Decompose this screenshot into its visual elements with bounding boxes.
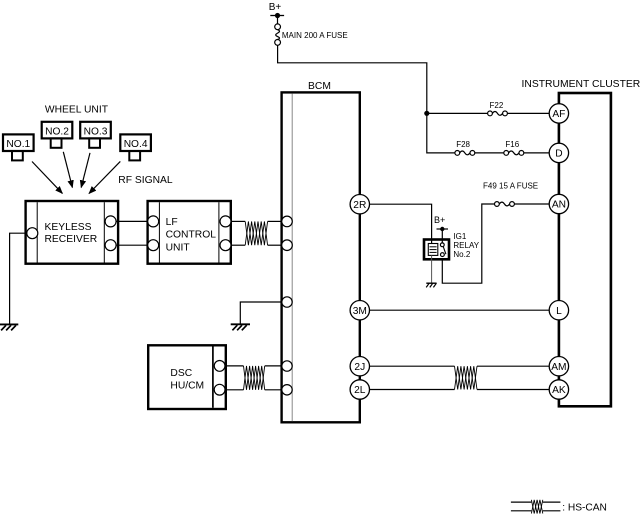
svg-text:LF: LF [166,217,178,228]
wire 2L to twist [369,389,454,391]
pin LF right upper [220,216,231,227]
pin keyless left [27,228,38,239]
wire LF to twist lower [231,244,245,246]
wheel unit NO.1 [3,134,34,160]
svg-text:AM: AM [551,362,566,373]
svg-text:No.2: No.2 [453,250,470,259]
instrument cluster box [522,79,641,406]
wire junction down to D row [427,113,455,152]
connector D [549,143,568,162]
wire 2R to relay coil [369,204,431,243]
wire BCM ground lead [240,302,281,324]
wheel unit NO.2 [42,122,73,148]
connector 3M [350,301,369,320]
pin LF right lower [220,240,231,251]
connector AF [549,104,568,123]
wire relay coil to ground [431,255,433,283]
pin BCM left upper (LF) [282,216,293,227]
wire keyless to LF lower [116,244,148,246]
pin LF left upper [148,216,159,227]
svg-text:F28: F28 [456,140,470,149]
svg-text:: HS-CAN: : HS-CAN [562,502,607,513]
wire MAIN fuse to junction [278,45,427,113]
connector 2R [350,195,369,214]
svg-text:RECEIVER: RECEIVER [45,234,98,245]
wire twist to BCM upper (DSC) [265,365,282,367]
fuse F16 [504,140,524,156]
RF arrow from NO.4 [89,161,120,193]
svg-text:WHEEL UNIT: WHEEL UNIT [45,104,109,115]
svg-text:DSC: DSC [170,368,192,379]
keyless receiver box [26,201,119,264]
fuse F22 [488,101,508,116]
svg-text:B+: B+ [269,2,282,13]
wire twist to AK [477,389,549,391]
connector L [549,301,568,320]
DSC HU/CM box [148,345,226,409]
svg-text:CONTROL: CONTROL [166,230,217,241]
relay IG1 RELAY No.2 [424,232,480,259]
svg-text:RF SIGNAL: RF SIGNAL [118,175,173,186]
wheel unit NO.4 [120,134,151,160]
svg-text:B+: B+ [434,215,445,225]
LF control unit box [148,201,231,264]
pin BCM left upper (DSC) [282,361,292,371]
pin BCM left (ground) [282,297,292,307]
connector 2J [350,357,369,376]
wire 2J to twist [369,365,454,367]
pin keyless right lower [105,240,116,251]
wire twist to BCM lower (DSC) [265,389,282,391]
twisted pair (LF to BCM) [245,221,267,245]
svg-text:IG1: IG1 [453,232,466,241]
connector AK [549,380,568,399]
fuse F28 [455,140,475,156]
wire twist to AM [477,365,549,367]
svg-text:KEYLESS: KEYLESS [45,222,92,233]
wire F16 to D [524,152,549,154]
wire DSC to twist upper [225,365,244,367]
svg-text:BCM: BCM [308,81,331,92]
svg-text:HU/CM: HU/CM [170,381,204,392]
twisted pair HS-CAN (2J/2L to AM/AK) [455,366,478,389]
twisted pair (DSC to BCM) [244,366,265,390]
power B+ (top) [269,2,284,18]
svg-text:3M: 3M [353,306,367,317]
svg-text:AN: AN [552,200,566,211]
RF arrow from NO.2 [63,152,72,188]
svg-text:NO.2: NO.2 [45,127,69,138]
ground (keyless receiver) [0,324,18,330]
svg-text:NO.4: NO.4 [124,139,148,150]
ground (BCM) [231,324,250,330]
wheel unit NO.3 [80,122,111,148]
wire relay B+ to switch [441,229,443,243]
svg-text:INSTRUMENT CLUSTER: INSTRUMENT CLUSTER [522,79,641,90]
svg-text:NO.3: NO.3 [84,127,108,138]
svg-text:AK: AK [552,385,566,396]
fuse MAIN 200 A FUSE [275,24,348,45]
connector AN [549,194,568,213]
svg-text:F22: F22 [490,101,504,110]
svg-text:L: L [556,306,562,317]
RF arrow from NO.1 [32,162,62,194]
BCM box [282,81,360,423]
power B+ (relay) [434,215,448,231]
wire relay switch to F49 [442,204,494,283]
RF arrow from NO.3 [81,153,90,188]
svg-text:MAIN 200 A FUSE: MAIN 200 A FUSE [282,31,348,40]
node junction B+ feed [424,111,429,116]
svg-text:UNIT: UNIT [166,243,191,254]
ground (relay) [426,283,436,287]
svg-text:AF: AF [552,109,565,120]
wire F22 to AF [507,112,549,114]
wire F49 to AN [514,203,549,205]
wire keyless receiver ground lead [10,233,27,324]
svg-text:2R: 2R [353,200,366,211]
pin DSC lower [214,384,225,395]
wire twist to BCM upper [268,220,282,222]
connector AM [549,357,568,376]
pin LF left lower [148,240,159,251]
legend twisted pair [511,500,561,514]
wire keyless to LF upper [116,220,148,222]
wire twist to BCM lower [268,244,282,246]
pin DSC upper [214,361,225,372]
wire F28 to F16 [475,152,504,154]
svg-text:2L: 2L [354,385,366,396]
pin keyless right upper [105,216,116,227]
wire junction to F22 [427,112,488,114]
svg-text:D: D [555,149,562,160]
pin BCM left lower (DSC) [282,385,292,395]
svg-text:F49 15 A FUSE: F49 15 A FUSE [483,181,538,190]
connector 2L [350,380,369,399]
wire B+ to MAIN fuse [277,16,279,25]
svg-text:2J: 2J [354,362,365,373]
wire LF to twist upper [231,220,245,222]
svg-text:F16: F16 [505,140,519,149]
svg-text:RELAY: RELAY [453,241,479,250]
fuse F49 15 A FUSE [483,181,538,206]
pin BCM left lower (LF) [282,240,293,251]
wire DSC to twist lower [225,389,244,391]
svg-text:NO.1: NO.1 [6,139,30,150]
wire 3M to L [369,309,549,311]
